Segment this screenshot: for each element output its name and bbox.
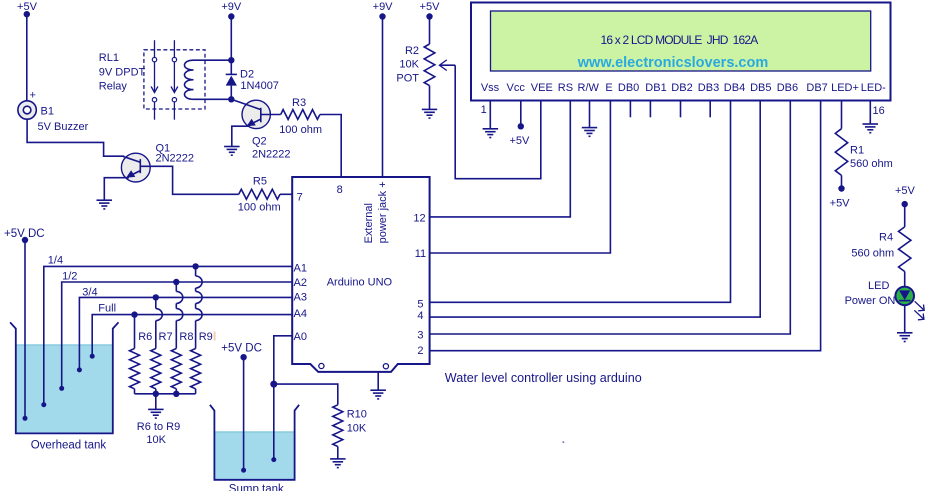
sump tank — [210, 405, 299, 491]
svg-text:R3: R3 — [292, 97, 306, 109]
op-amp U1 Arduino UNO outline — [292, 177, 429, 372]
wire Q1 base to R5 — [140, 166, 238, 194]
svg-text:12: 12 — [413, 213, 425, 225]
svg-text:+5V: +5V — [509, 135, 530, 147]
svg-text:560 ohm: 560 ohm — [851, 248, 894, 260]
svg-text:LED: LED — [868, 280, 889, 292]
label R6 to R9 10K — [137, 421, 180, 446]
node junction (coil bottom / Q2 collector) — [228, 96, 234, 102]
svg-text:DB3: DB3 — [698, 82, 719, 94]
svg-text:R9: R9 — [199, 331, 213, 343]
node junction R7/3-4 — [153, 294, 159, 300]
node +5V (Vcc) — [509, 123, 530, 147]
svg-text:A3: A3 — [294, 292, 307, 304]
svg-text:RL1: RL1 — [99, 52, 119, 64]
svg-text:D2: D2 — [240, 68, 254, 80]
svg-text:Full: Full — [98, 303, 116, 315]
svg-text:2N2222: 2N2222 — [156, 153, 195, 165]
svg-text:R8: R8 — [179, 331, 193, 343]
node +9V (power jack) — [373, 1, 394, 20]
svg-text:+9V: +9V — [221, 1, 242, 13]
svg-text:R10: R10 — [347, 409, 367, 421]
svg-text:DB1: DB1 — [645, 82, 666, 94]
buzzer B1 — [18, 90, 89, 134]
svg-text:VEE: VEE — [531, 82, 553, 94]
resistor R4 560 ohm — [851, 227, 911, 287]
svg-text:5V Buzzer: 5V Buzzer — [38, 121, 89, 133]
svg-text:10K: 10K — [146, 434, 166, 446]
wire RS to Arduino pin 12 — [430, 101, 571, 217]
svg-text:7: 7 — [297, 192, 303, 204]
svg-text:R5: R5 — [253, 176, 267, 188]
svg-text:3: 3 — [417, 329, 423, 341]
svg-text:R4: R4 — [879, 232, 893, 244]
ground (R2) — [422, 109, 437, 118]
svg-text:1N4007: 1N4007 — [240, 80, 279, 92]
wire 1/4 probe to A1 — [41, 255, 292, 408]
wire R2 wiper to LCD VEE — [455, 65, 541, 179]
potentiometer R2 10K — [396, 44, 455, 109]
wire +5V to buzzer B1 — [26, 14, 28, 101]
node +5V (R1) — [830, 185, 851, 209]
svg-text:R7: R7 — [159, 331, 173, 343]
svg-text:100 ohm: 100 ohm — [279, 124, 322, 136]
svg-text:RS: RS — [558, 82, 573, 94]
ground (R10) — [330, 459, 346, 468]
wire DB4 to Arduino pin 5 — [430, 101, 731, 303]
svg-text:Q2: Q2 — [252, 136, 267, 148]
wire 3/4 probe to A3 — [77, 287, 292, 373]
ground (LED) — [897, 333, 913, 342]
svg-text:+5V DC: +5V DC — [221, 343, 262, 355]
wire Full probe to A4 — [90, 303, 293, 359]
pin 5 R/W stub — [589, 101, 591, 128]
svg-text:2N2222: 2N2222 — [252, 149, 291, 161]
pin 16 LED- stub — [869, 101, 871, 125]
svg-text:External: External — [363, 203, 375, 243]
wire A0 to sump probe — [271, 336, 292, 462]
LED D1 Power ON — [845, 280, 914, 307]
resistor R10 10K — [333, 405, 367, 459]
svg-text:A1: A1 — [294, 263, 307, 275]
wire +9V down to relay/diode — [230, 17, 232, 75]
svg-text:1/2: 1/2 — [62, 271, 77, 283]
svg-text:16 x 2 LCD MODULE JHD 162A: 16 x 2 LCD MODULE JHD 162A — [601, 33, 759, 47]
transistor Q2 — [231, 99, 290, 160]
wire LED to ground — [904, 305, 906, 333]
wire +9V to external power jack pin — [382, 17, 384, 178]
svg-text:DB2: DB2 — [671, 82, 692, 94]
svg-text:4: 4 — [417, 310, 423, 322]
node junction R9/1-4 — [192, 263, 198, 269]
pin 1 Vss stub — [489, 101, 491, 129]
svg-text:DB5: DB5 — [750, 82, 771, 94]
wire B1 to Q1 collector — [27, 119, 124, 156]
svg-text:DB0: DB0 — [618, 82, 639, 94]
node +5V DC (overhead probe) — [4, 228, 45, 243]
svg-text:Water level controller using a: Water level controller using arduino — [445, 371, 642, 385]
svg-text:16: 16 — [873, 105, 885, 117]
wire LED+ to R1 — [841, 101, 843, 129]
LCD module U-LCD (16x2) — [471, 3, 891, 118]
wire +5V to R2 — [429, 17, 431, 45]
pin DB2 stub — [680, 101, 682, 118]
ground (Q1 emitter) — [97, 200, 113, 209]
node junction R8/1-2 — [173, 279, 179, 285]
pin 2 Vcc stub — [520, 101, 522, 127]
wire junction to R10 — [274, 384, 338, 405]
svg-text:LED-: LED- — [861, 82, 886, 94]
svg-text:A4: A4 — [294, 308, 307, 320]
svg-text:LED+: LED+ — [831, 82, 859, 94]
svg-text:Arduino UNO: Arduino UNO — [327, 277, 393, 289]
svg-text:R6 to R9: R6 to R9 — [137, 421, 180, 433]
svg-text:10K: 10K — [399, 59, 419, 71]
ground (R6-R9 rail) — [148, 394, 164, 418]
resistor R1 560 ohm — [835, 129, 893, 189]
node junction R6/Full — [131, 311, 137, 317]
svg-text:1/4: 1/4 — [48, 255, 63, 267]
svg-text:B1: B1 — [41, 106, 54, 118]
wire DB7 to Arduino pin 2 — [430, 101, 821, 351]
svg-text:power jack +: power jack + — [377, 181, 389, 243]
svg-text:11: 11 — [415, 248, 426, 260]
node +9V (relay rail) — [221, 1, 242, 20]
svg-text:E: E — [605, 82, 612, 94]
resistor R8 (lead hops 3/4,Full wires) — [171, 282, 193, 394]
svg-text:5: 5 — [417, 299, 423, 311]
pin DB1 stub — [649, 101, 651, 118]
wire R5 to Arduino pin 7 — [280, 193, 292, 195]
svg-text:+5V: +5V — [830, 197, 851, 209]
svg-text:10K: 10K — [347, 423, 367, 435]
resistor R3 — [279, 97, 322, 136]
relay RL1 — [99, 40, 232, 120]
svg-text:Overhead tank: Overhead tank — [31, 440, 107, 452]
ground (Arduino) — [370, 372, 386, 399]
svg-text:R6: R6 — [138, 331, 152, 343]
resistor R5 — [238, 176, 281, 214]
svg-text:9V DPDT: 9V DPDT — [99, 67, 146, 79]
svg-text:R1: R1 — [850, 144, 864, 156]
svg-text:DB6: DB6 — [777, 82, 798, 94]
wire DB5 to Arduino pin 4 — [430, 101, 761, 318]
svg-text:+5V: +5V — [420, 1, 441, 13]
svg-text:POT: POT — [396, 73, 419, 85]
svg-text:2: 2 — [417, 345, 423, 357]
svg-text:Vcc: Vcc — [507, 82, 526, 94]
ground (R/W) — [582, 128, 597, 137]
node +5V (LED branch) — [895, 185, 916, 207]
wire DB6 to Arduino pin 3 — [430, 101, 791, 335]
ground (LED-) — [863, 124, 879, 133]
artifact dot — [562, 441, 564, 443]
wire sump +5V probe — [241, 357, 246, 473]
wire 1/2 probe to A2 — [59, 271, 292, 391]
svg-text:R/W: R/W — [578, 82, 600, 94]
wire R3 to Arduino pin 8 — [320, 115, 341, 178]
svg-text:+5V: +5V — [895, 185, 916, 197]
svg-text:R2: R2 — [405, 45, 419, 57]
svg-text:Sump tank: Sump tank — [229, 483, 284, 491]
overhead tank — [10, 322, 118, 451]
wire E to Arduino pin 11 — [430, 101, 611, 254]
node +5V DC (sump probe) — [221, 343, 262, 361]
diode D2 1N4007 — [226, 68, 279, 99]
svg-text:Vss: Vss — [481, 82, 500, 94]
resistor R7 (lead hops Full wire) — [151, 297, 173, 393]
node +5V (pot R2) — [420, 1, 441, 20]
svg-text:Power ON: Power ON — [845, 295, 896, 307]
svg-text:100 ohm: 100 ohm — [238, 202, 281, 214]
svg-text:1: 1 — [481, 104, 487, 116]
wire +5V DC probe — [23, 240, 28, 421]
resistor R6 — [130, 315, 153, 394]
resistor R9 (lead hops 1/2,3/4,Full wires) — [191, 266, 213, 393]
svg-text:8: 8 — [337, 184, 343, 196]
ground (Q2 emitter) — [224, 147, 240, 156]
wire +5V to R4 — [904, 204, 906, 227]
node junction A0/R10 — [270, 381, 277, 388]
svg-text:+9V: +9V — [373, 1, 394, 13]
pin DB3 stub — [709, 101, 711, 118]
pin DB0 stub — [629, 101, 631, 118]
svg-text:A0: A0 — [294, 331, 307, 343]
cursor artifact — [214, 332, 216, 341]
svg-text:DB4: DB4 — [724, 82, 745, 94]
svg-text:+: + — [30, 90, 36, 102]
svg-text:3/4: 3/4 — [82, 287, 97, 299]
LED light arrows — [914, 301, 924, 320]
node +5V (top left) — [17, 1, 38, 17]
svg-text:Relay: Relay — [99, 81, 128, 93]
node junction (coil top) — [228, 57, 234, 63]
svg-text:A2: A2 — [294, 277, 307, 289]
svg-text:www.electronicslovers.com: www.electronicslovers.com — [577, 55, 768, 71]
wire Q2 base to R3 — [261, 114, 281, 116]
transistor Q1 — [104, 143, 194, 201]
wire common rail R6-R9 — [135, 391, 196, 397]
ground (Vss) — [483, 129, 499, 138]
svg-text:560 ohm: 560 ohm — [850, 158, 893, 170]
svg-text:DB7: DB7 — [806, 82, 827, 94]
